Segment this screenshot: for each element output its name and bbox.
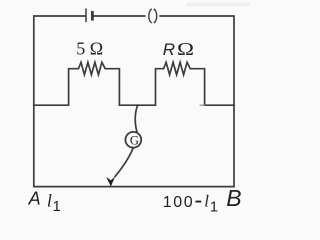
svg-text:5 Ω: 5 Ω (76, 39, 103, 59)
svg-text:A: A (28, 189, 41, 209)
svg-text:R: R (163, 40, 175, 59)
svg-text:1: 1 (210, 198, 218, 215)
svg-text:l: l (47, 190, 52, 210)
svg-text:B: B (226, 185, 241, 211)
svg-text:-: - (194, 187, 202, 214)
svg-text:Ω: Ω (177, 39, 194, 59)
svg-text:100: 100 (163, 194, 195, 211)
svg-text:l: l (204, 192, 209, 211)
svg-text:1: 1 (53, 198, 61, 215)
svg-text:G: G (130, 133, 139, 147)
